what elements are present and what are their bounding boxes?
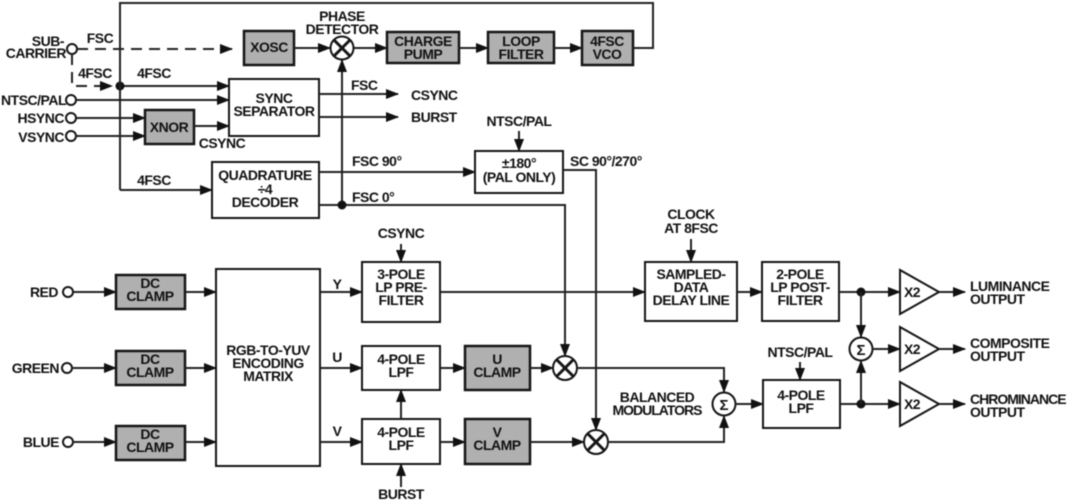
wire DC clamp blue to matrix: [185, 441, 216, 443]
block PAL 180 switch: [475, 151, 563, 193]
svg-text:V: V: [333, 423, 343, 439]
wire FSC vertical to phase detector: [341, 60, 343, 205]
svg-text:Y: Y: [333, 276, 343, 292]
svg-text:VSYNC: VSYNC: [18, 129, 64, 145]
block V CLAMP: [465, 419, 530, 464]
svg-text:(PAL ONLY): (PAL ONLY): [483, 169, 556, 185]
svg-text:BLUE: BLUE: [23, 434, 59, 450]
block XOSC: [244, 31, 294, 65]
wire GREEN to DC clamp: [72, 367, 116, 369]
wire V LPF up to U LPF: [400, 390, 402, 419]
svg-text:NTSC/PAL: NTSC/PAL: [487, 113, 553, 129]
wire chroma summer to chroma LPF: [735, 403, 763, 405]
wire BLUE to DC clamp: [73, 441, 116, 443]
terminal RED: [63, 287, 73, 297]
wire U modulator to chroma summer: [577, 368, 724, 392]
svg-text:U: U: [332, 349, 342, 365]
svg-text:BURST: BURST: [411, 109, 458, 125]
wire sync separator to BURST out: [319, 116, 398, 118]
wire chrominance output: [939, 403, 965, 405]
block 3-POLE LP PRE-FILTER: [362, 262, 440, 322]
svg-text:4FSC: 4FSC: [78, 65, 112, 81]
wire VCO feedback loop to 4FSC node and quadrature decoder: [120, 3, 653, 190]
svg-text:LPF: LPF: [389, 437, 415, 453]
svg-text:FILTER: FILTER: [778, 292, 823, 308]
wire XNOR to sync separator CSYNC: [194, 125, 229, 127]
svg-text:X2: X2: [904, 396, 921, 412]
svg-text:VCO: VCO: [593, 46, 622, 62]
op chroma summer: [713, 393, 736, 416]
svg-text:BURST: BURST: [378, 486, 425, 500]
wire NTSC/PAL into chroma LPF: [799, 362, 801, 380]
block 4-POLE LPF V: [362, 419, 440, 464]
amp X2 composite: [900, 327, 939, 371]
wire clock into delay line: [690, 239, 692, 262]
block RGB-TO-YUV ENCODING MATRIX: [216, 269, 320, 466]
svg-text:XOSC: XOSC: [250, 39, 288, 55]
block 4-POLE LPF U: [362, 346, 440, 390]
block LOOP FILTER: [488, 32, 554, 63]
wire postfilter to luminance amp: [839, 291, 900, 293]
block CHARGE PUMP: [387, 32, 459, 63]
svg-text:CSYNC: CSYNC: [378, 225, 425, 241]
block SYNC SEPARATOR: [229, 79, 319, 136]
svg-text:CLAMP: CLAMP: [473, 437, 520, 453]
svg-text:DELAY LINE: DELAY LINE: [653, 292, 730, 308]
svg-text:FILTER: FILTER: [499, 46, 544, 62]
svg-text:FSC 90°: FSC 90°: [352, 153, 402, 169]
wire charge pump to loop filter: [459, 47, 488, 49]
wire VSYNC to XNOR: [76, 135, 145, 137]
svg-text:DETECTOR: DETECTOR: [306, 21, 379, 37]
terminal SUB-CARRIER: [67, 44, 77, 54]
wire luma junction down to composite summer: [860, 292, 862, 337]
svg-text:MATRIX: MATRIX: [243, 368, 294, 384]
wire matrix Y to prefilter: [320, 291, 362, 293]
wire composite summer to composite amp: [872, 348, 900, 350]
wire matrix V to V LPF: [320, 441, 362, 443]
wire U LPF to U clamp: [440, 367, 465, 369]
wire DC clamp red to matrix: [185, 291, 216, 293]
svg-text:CARRIER: CARRIER: [6, 45, 67, 61]
wire V LPF to V clamp: [440, 441, 465, 443]
wire FSC 90 to PAL switch: [319, 171, 475, 173]
wire loop filter to VCO: [554, 47, 582, 49]
block DC CLAMP blue: [116, 426, 185, 460]
wire delay line to postfilter: [737, 291, 762, 293]
svg-text:OUTPUT: OUTPUT: [970, 348, 1026, 364]
wire V clamp to V modulator: [530, 441, 584, 443]
wire U clamp to U modulator: [530, 367, 553, 369]
terminal VSYNC: [66, 131, 76, 141]
svg-text:DECODER: DECODER: [232, 194, 299, 210]
op composite summer: [850, 338, 873, 361]
wire burst into V LPF: [400, 464, 402, 487]
svg-text:HSYNC: HSYNC: [17, 110, 64, 126]
svg-text:CSYNC: CSYNC: [199, 135, 246, 151]
svg-text:4FSC: 4FSC: [137, 172, 171, 188]
wire chroma LPF to chrominance amp: [840, 403, 900, 405]
svg-text:FSC: FSC: [351, 77, 378, 93]
svg-text:SEPARATOR: SEPARATOR: [233, 103, 314, 119]
wire 4FSC to quadrature decoder: [120, 189, 212, 191]
block DC CLAMP green: [116, 351, 185, 385]
svg-text:CLAMP: CLAMP: [126, 439, 173, 455]
svg-text:PUMP: PUMP: [404, 46, 443, 62]
wire NTSC/PAL to sync separator: [76, 99, 229, 101]
wire luminance output: [939, 291, 965, 293]
wire matrix U to U LPF: [320, 367, 362, 369]
wire composite output: [939, 348, 965, 350]
op U modulator: [553, 356, 577, 380]
block DC CLAMP red: [116, 275, 185, 309]
terminal BLUE: [63, 437, 73, 447]
wire phase detector to charge pump: [354, 47, 387, 49]
block QUADRATURE DIVIDE-BY-4 DECODER: [212, 162, 319, 218]
node junction chroma: [857, 400, 866, 409]
amp X2 chrominance: [900, 382, 939, 426]
svg-text:MODULATORS: MODULATORS: [612, 402, 702, 418]
svg-text:SC 90°/270°: SC 90°/270°: [570, 153, 642, 169]
gate XNOR: [145, 110, 194, 144]
svg-text:Σ: Σ: [719, 397, 728, 414]
block U CLAMP: [465, 346, 530, 390]
svg-text:X2: X2: [904, 284, 921, 300]
svg-text:FILTER: FILTER: [379, 292, 424, 308]
svg-text:GREEN: GREEN: [12, 360, 60, 376]
svg-text:XNOR: XNOR: [150, 119, 189, 135]
block 2-POLE LP POST-FILTER: [762, 262, 839, 321]
block SAMPLED-DATA DELAY LINE: [645, 262, 737, 321]
node junction 4FSC: [116, 82, 125, 91]
wire prefilter to delay line: [440, 291, 645, 293]
wire dashed subcarrier to 4FSC node: [72, 54, 112, 86]
terminal HSYNC: [66, 113, 76, 123]
svg-text:NTSC/PAL: NTSC/PAL: [1, 92, 67, 108]
svg-text:LPF: LPF: [389, 364, 415, 380]
wire RED to DC clamp: [73, 291, 116, 293]
wire sync separator to CSYNC out: [319, 93, 398, 95]
wire HSYNC to XNOR: [76, 117, 145, 119]
svg-text:CSYNC: CSYNC: [411, 87, 458, 103]
svg-text:4FSC: 4FSC: [137, 65, 171, 81]
block 4FSC VCO: [582, 31, 633, 65]
svg-text:Σ: Σ: [856, 342, 865, 359]
svg-text:LPF: LPF: [789, 400, 815, 416]
wire DC clamp green to matrix: [185, 367, 216, 369]
wire NTSC/PAL into PAL switch: [518, 131, 520, 151]
node junction luma: [857, 288, 866, 297]
terminal GREEN: [62, 363, 72, 373]
svg-text:CLAMP: CLAMP: [473, 364, 520, 380]
wire 4FSC node to sync separator: [120, 85, 229, 87]
svg-text:OUTPUT: OUTPUT: [970, 291, 1026, 307]
wire V modulator to chroma summer: [608, 416, 724, 442]
wire XOSC to phase detector: [294, 47, 330, 49]
wire FSC 0 to U modulator: [319, 205, 565, 356]
svg-text:AT 8FSC: AT 8FSC: [664, 220, 718, 236]
op V modulator: [584, 430, 608, 454]
wire SC 90/270 to V modulator: [563, 170, 596, 430]
svg-text:OUTPUT: OUTPUT: [970, 404, 1026, 420]
svg-text:CLAMP: CLAMP: [126, 364, 173, 380]
terminal NTSC/PAL: [66, 95, 76, 105]
amp X2 luminance: [900, 270, 939, 314]
svg-text:FSC: FSC: [87, 30, 114, 46]
wire CSYNC into prefilter: [400, 244, 402, 262]
svg-text:FSC 0°: FSC 0°: [352, 189, 394, 205]
wire chroma junction up to composite summer: [860, 361, 862, 404]
block 4-POLE LPF chroma: [763, 380, 840, 428]
svg-text:X2: X2: [904, 341, 921, 357]
svg-text:NTSC/PAL: NTSC/PAL: [768, 344, 834, 360]
svg-text:CLAMP: CLAMP: [126, 288, 173, 304]
svg-text:RED: RED: [30, 284, 58, 300]
node junction FSC: [338, 201, 347, 210]
wire dashed subcarrier to XOSC: [77, 48, 232, 50]
